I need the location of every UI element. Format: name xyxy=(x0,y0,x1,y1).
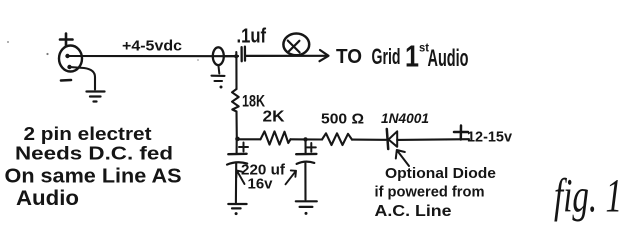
wire MIC1 pin2 to ground xyxy=(70,67,96,90)
paper speck xyxy=(46,53,48,55)
plus polarity at C2 xyxy=(239,143,248,152)
resistor R2 2K (zigzag) xyxy=(261,131,291,144)
X circle symbol (node X) xyxy=(283,34,309,56)
capacitor C3 bottom plate (curved) xyxy=(297,162,315,164)
plus polarity at C3 xyxy=(307,143,316,152)
capacitor C3 top plate xyxy=(296,153,316,156)
paper speck xyxy=(197,59,199,61)
microphone MIC1 pin 2 dot xyxy=(67,65,71,69)
wire D1 to +12-15V supply xyxy=(397,138,469,141)
resistor R3 500 ohm (zigzag) xyxy=(322,133,352,145)
ground dot at J1 xyxy=(220,86,223,89)
wire node C down to capacitor C3 xyxy=(304,139,306,152)
ground at J1 xyxy=(212,76,225,81)
wire J1 to node A xyxy=(224,55,239,57)
node A (junction to 18K) xyxy=(235,52,237,57)
svg-text:+4-5vdc: +4-5vdc xyxy=(122,39,182,55)
node B junction dot xyxy=(235,137,240,142)
wire node B down to capacitor C2 xyxy=(236,139,238,153)
microphone MIC1 (2-pin electret) body xyxy=(59,46,82,72)
svg-text:1: 1 xyxy=(405,39,419,74)
svg-text:Grid: Grid xyxy=(372,44,401,69)
capacitor C2 bottom plate (curved) xyxy=(227,162,247,164)
connector J1 (oval on line) xyxy=(213,47,224,65)
diode D1 cathode bar xyxy=(387,129,388,149)
capacitor C2 220uf top plate xyxy=(228,153,246,156)
svg-text:2 pin electret: 2 pin electret xyxy=(24,123,152,144)
ground at MIC1 xyxy=(87,92,105,102)
arrowhead to grid xyxy=(320,50,329,61)
ground at C3 xyxy=(296,201,317,207)
svg-text:A.C. Line: A.C. Line xyxy=(375,203,452,220)
plus polarity label at MIC1 xyxy=(60,34,73,47)
svg-text:fig. 1: fig. 1 xyxy=(554,170,622,223)
minus polarity label at MIC1 xyxy=(61,79,71,82)
svg-text:Needs D.C. fed: Needs D.C. fed xyxy=(15,143,173,164)
wire node B to resistor R2 xyxy=(237,138,261,140)
wire R1 to node B xyxy=(235,112,237,140)
wire MIC1 pin1 to connector J1 (+4-5VDC line) xyxy=(68,55,239,57)
svg-text:12-15v: 12-15v xyxy=(467,129,513,146)
node C junction dot xyxy=(303,137,307,141)
svg-text:1N4001: 1N4001 xyxy=(381,111,429,126)
X mark inside node X xyxy=(288,41,300,53)
svg-text:TO: TO xyxy=(336,46,362,68)
wire R3 to diode D1 xyxy=(352,139,386,141)
wire C2 to ground xyxy=(235,164,237,203)
svg-text:16v: 16v xyxy=(248,176,274,193)
capacitor C1 .1uf plates xyxy=(242,47,245,62)
annotation arrow pointing to C3 xyxy=(286,170,297,184)
ground at C2 xyxy=(228,204,246,208)
wire node C to resistor R3 xyxy=(306,138,323,140)
resistor R1 18K (vertical zigzag) xyxy=(232,89,239,112)
plus sign of supply label xyxy=(454,126,468,140)
svg-text:500 Ω: 500 Ω xyxy=(321,111,364,128)
svg-text:.1uf: .1uf xyxy=(237,26,267,48)
annotation arrow pointing to D1 xyxy=(396,150,409,166)
wire R2 to node C xyxy=(291,138,306,140)
svg-text:On same Line AS: On same Line AS xyxy=(5,166,182,188)
svg-text:Audio: Audio xyxy=(16,187,79,210)
wire J1 body to its ground xyxy=(217,65,220,74)
microphone MIC1 pin 1 dot xyxy=(65,54,69,58)
wire C1 to arrow (passes under X circle) xyxy=(246,55,327,57)
svg-text:if powered from: if powered from xyxy=(375,185,485,201)
wire node A down to resistor R1 xyxy=(235,57,237,90)
svg-text:Optional Diode: Optional Diode xyxy=(385,165,496,182)
wire C3 to ground xyxy=(304,163,306,199)
svg-text:2K: 2K xyxy=(263,109,285,126)
paper speck xyxy=(7,41,9,43)
diode D1 triangle (anode right) xyxy=(389,131,398,147)
svg-text:Audio: Audio xyxy=(428,45,469,72)
annotation arrow from 220uf label to C2 xyxy=(236,171,244,185)
